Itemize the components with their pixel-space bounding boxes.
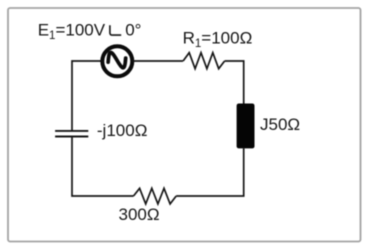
svg-text:J50Ω: J50Ω	[260, 115, 300, 134]
wire bottom-left	[72, 137, 134, 196]
AC voltage source E1	[102, 46, 132, 76]
resistor R1	[183, 53, 225, 69]
value label E1=100V angle 0deg for source E1	[38, 21, 142, 43]
svg-text:-j100Ω: -j100Ω	[97, 121, 148, 140]
resistor 300 ohm	[134, 188, 177, 204]
inductor J50 ohm (black bar)	[237, 104, 255, 149]
wire top-middle	[133, 60, 184, 62]
svg-text:E1=100V: E1=100V	[38, 21, 106, 43]
svg-text:R1=100Ω: R1=100Ω	[183, 29, 253, 51]
wire top-right	[225, 61, 244, 104]
svg-text:300Ω: 300Ω	[119, 205, 160, 224]
wire top-left	[72, 61, 102, 131]
svg-text:0°: 0°	[125, 21, 141, 40]
capacitor -j100 ohm	[55, 130, 88, 132]
wire right-bottom	[176, 148, 244, 196]
sine wave inside source E1	[108, 52, 126, 67]
angle symbol in E1 label	[110, 25, 121, 35]
